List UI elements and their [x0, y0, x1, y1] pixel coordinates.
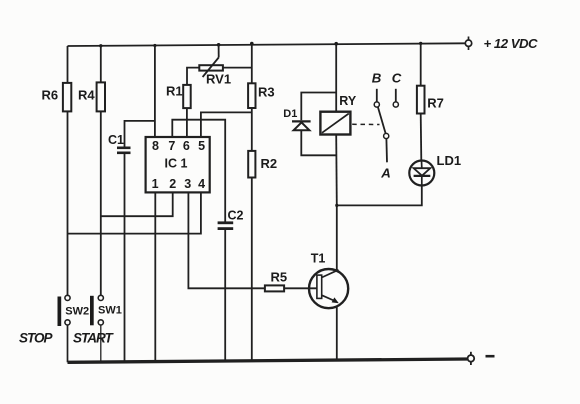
svg-text:7: 7 [168, 139, 175, 153]
wire pin2 to R4/SW1 line [101, 192, 173, 216]
label LD1 [437, 153, 462, 168]
label R5 [271, 269, 288, 284]
wire C2 bottom to ground rail [224, 229, 226, 362]
terminal minus [468, 352, 475, 365]
capacitor C2 [218, 223, 234, 229]
resistor R6 [63, 83, 71, 112]
svg-text:1: 1 [152, 177, 159, 191]
label R4 [78, 87, 95, 102]
wire RV1 left to R1 top [187, 68, 199, 85]
transistor T1 [309, 269, 348, 308]
LED LD1 [409, 161, 434, 186]
label SW1 [98, 305, 122, 317]
wire T1 emitter to ground rail [336, 307, 338, 362]
label RV1 [206, 72, 231, 87]
wire T1 collector up [336, 205, 338, 270]
label R7 [427, 95, 444, 110]
wire R5 to T1 base [284, 287, 317, 289]
junction rail-R7 [419, 42, 422, 45]
wire pin8 to rail [154, 46, 156, 138]
resistor R1 [183, 85, 191, 108]
resistor R2 [248, 151, 255, 178]
junction rail-relay [334, 42, 338, 46]
svg-text:6: 6 [183, 139, 190, 153]
pin 1 [152, 177, 159, 191]
svg-text:5: 5 [198, 139, 205, 153]
label T1 [311, 251, 326, 265]
pin 2 [169, 177, 176, 191]
svg-text:RY: RY [339, 94, 357, 108]
wire C1 bottom to ground rail [124, 153, 126, 362]
pin 5 [198, 139, 205, 153]
svg-text:R1: R1 [166, 83, 183, 98]
wire dashed relay to switch link [352, 123, 379, 125]
pin 4 [198, 177, 205, 191]
switch SW2 [58, 295, 71, 362]
wire R3 top [251, 44, 253, 84]
svg-text:R7: R7 [427, 95, 444, 110]
svg-text:D1: D1 [283, 108, 297, 120]
label minus [486, 355, 495, 358]
wire R4 top [100, 46, 102, 83]
label + 12 VDC [484, 36, 539, 51]
resistor R5 [265, 285, 284, 291]
pin 7 [168, 139, 175, 153]
junction rail-RV1 [217, 43, 221, 47]
label STOP [19, 330, 54, 345]
wire pin5 to R3/R2 node [201, 112, 252, 137]
junction LD1-collector [335, 204, 338, 207]
label START [73, 330, 115, 345]
label B [372, 70, 382, 85]
wire RV1 right to R3 line [222, 67, 251, 69]
diode D1 [292, 121, 311, 130]
switch wiper arm [378, 107, 389, 162]
switch SW1 [90, 295, 103, 362]
resistor R3 [248, 83, 255, 108]
svg-text:LD1: LD1 [437, 153, 462, 168]
svg-text:B: B [372, 70, 382, 85]
label R2 [261, 156, 278, 171]
wire D1 top branch [301, 93, 336, 121]
wire R1 bottom to pin6 [186, 108, 188, 137]
svg-text:IC 1: IC 1 [165, 156, 188, 170]
node B contact [374, 89, 379, 107]
svg-text:A: A [380, 165, 391, 180]
svg-text:SW1: SW1 [98, 305, 122, 317]
wire top +12V rail [68, 43, 466, 46]
svg-text:4: 4 [198, 177, 205, 191]
capacitor C1 [117, 148, 131, 153]
junction rail-R3 [250, 42, 254, 46]
label R6 [42, 87, 59, 102]
label A [380, 165, 391, 180]
wire R2 bottom to ground rail [251, 178, 253, 362]
label SW2 [65, 305, 89, 317]
wire R7 bottom to LD1 [420, 114, 423, 161]
label IC 1 [165, 156, 188, 170]
relay RY coil [320, 112, 350, 135]
svg-text:R5: R5 [271, 269, 288, 284]
wire R3 bottom to R2 top [251, 108, 253, 151]
wire R6 bottom to SW2 [67, 111, 69, 295]
label C [392, 70, 402, 85]
wire pin3 to R5 [188, 192, 265, 288]
label C1 [108, 133, 124, 147]
label R1 [166, 83, 183, 98]
wire D1 bottom branch [301, 130, 336, 155]
svg-text:R2: R2 [261, 156, 278, 171]
wire relay coil top [335, 44, 337, 112]
svg-text:STOP: STOP [19, 330, 54, 345]
svg-text:R3: R3 [258, 85, 275, 100]
svg-text:2: 2 [169, 177, 176, 191]
pin 8 [152, 139, 159, 153]
wire pin1 to ground rail [154, 192, 156, 362]
label D1 [283, 108, 297, 120]
svg-text:C2: C2 [228, 209, 244, 223]
wire pin7 to C2 top [172, 120, 225, 223]
wire C1 top [125, 121, 155, 147]
svg-text:+ 12 VDC: + 12 VDC [484, 36, 539, 51]
svg-text:R6: R6 [42, 87, 59, 102]
pin 6 [183, 139, 190, 153]
svg-text:SW2: SW2 [65, 305, 89, 317]
svg-text:RV1: RV1 [206, 72, 231, 87]
svg-text:3: 3 [184, 177, 191, 191]
wire R6 top [67, 46, 69, 83]
resistor R7 [417, 86, 425, 114]
svg-text:C: C [392, 70, 402, 85]
label R3 [258, 85, 275, 100]
IC U1 (IC 1) body [146, 137, 210, 192]
junction rail-pin8 [153, 44, 156, 47]
svg-text:8: 8 [152, 139, 159, 153]
label C2 [228, 209, 244, 223]
wire relay coil bottom to T1 collector [335, 135, 338, 206]
svg-text:T1: T1 [311, 251, 326, 265]
wire R7 top [420, 43, 422, 85]
terminal +12VDC [465, 37, 471, 51]
svg-text:START: START [73, 330, 115, 345]
wire pin4 to R6/SW2 line [68, 192, 201, 233]
node C contact [393, 89, 398, 107]
junction rail-R4 [99, 44, 102, 47]
svg-text:R4: R4 [78, 87, 95, 102]
wire R4 bottom to SW1 [100, 111, 102, 295]
label RY [339, 94, 357, 108]
pin 3 [184, 177, 191, 191]
svg-text:C1: C1 [108, 133, 124, 147]
wire ground bottom rail [68, 359, 468, 362]
resistor R4 [97, 82, 105, 111]
potentiometer RV1 [199, 45, 223, 77]
wire LD1 bottom to relay line [337, 186, 422, 206]
